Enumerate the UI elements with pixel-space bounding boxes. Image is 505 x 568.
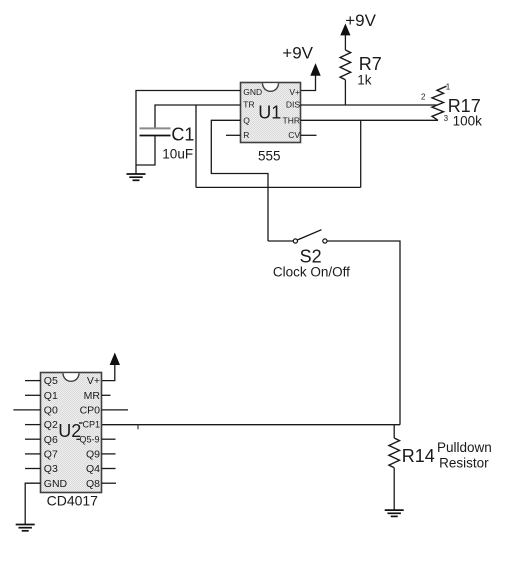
wire U1 DIS pin to R17 pin2 [301,104,437,106]
svg-text:2: 2 [421,93,426,102]
wire U1 CV pin stub [301,134,317,136]
svg-text:Q2: Q2 [44,419,58,431]
svg-text:Q8: Q8 [86,478,100,490]
wire to switch left contact [268,240,293,242]
svg-text:V+: V+ [87,375,100,387]
svg-text:GND: GND [44,478,68,490]
IC U1 555 body [241,83,301,143]
wire U1 TR pin to C1 [155,105,241,128]
svg-text:Q0: Q0 [44,405,58,417]
svg-text:R7: R7 [359,54,382,74]
svg-text:555: 555 [258,148,281,163]
svg-text:Q5-9: Q5-9 [79,434,99,444]
svg-text:R14: R14 [402,446,435,466]
tick mark on CP1 wire [137,425,139,430]
wire C1 bottom to ground wire [136,136,155,166]
wire U2 Q8 stub [102,482,117,484]
ground symbol (R14) [385,510,404,516]
svg-text:+9V: +9V [282,44,313,63]
svg-text:R: R [243,130,249,140]
power arrow symbol (U2 V+) [110,354,119,365]
capacitor C1 [140,128,171,135]
wire R14 to ground [393,468,395,510]
U2 pin label CP1 (active low) [79,419,100,429]
wire U2 Q3 stub [25,468,41,470]
wire junction to R14 [393,425,395,438]
svg-text:CV: CV [288,130,300,140]
ground symbol (C1/U1) [127,174,146,180]
svg-text:+9V: +9V [345,11,376,30]
wire TR-THR link vertical from TR line [195,105,197,187]
wire U2 GND pin to ground [25,483,40,524]
wire U2 CP1 to junction [102,424,401,426]
svg-text:Q1: Q1 [44,390,58,402]
wire U2 Q5 stub [25,380,41,382]
wire U1 R pin stub [226,134,241,136]
svg-text:TR: TR [243,99,254,109]
wire TR-THR link horizontal [196,186,361,188]
svg-text:Q: Q [243,115,250,125]
svg-text:1: 1 [446,82,451,91]
svg-text:DIS: DIS [286,99,301,109]
wire R7 bottom to DIS line [344,80,346,105]
wire U2 MR stub [102,394,111,396]
svg-text:100k: 100k [453,113,483,128]
wire U2 Q1 stub [25,394,41,396]
svg-text:Clock On/Off: Clock On/Off [273,265,350,280]
svg-text:GND: GND [243,87,262,97]
wire TR-THR link vertical to THR line [360,120,362,187]
svg-text:Resistor: Resistor [439,455,489,470]
wire V+ pin to arrow [301,75,316,90]
resistor R14 [389,438,400,468]
svg-text:S2: S2 [300,246,322,266]
svg-text:THR: THR [283,115,300,125]
svg-text:Pulldown: Pulldown [437,440,492,455]
svg-text:1k: 1k [357,72,372,87]
wire U1 GND pin to ground [136,91,241,174]
svg-text:Q5: Q5 [44,375,58,387]
switch S2 [293,230,327,243]
ground symbol (U2) [16,525,35,531]
svg-text:Q9: Q9 [86,449,100,461]
wire U2 Q5-9 stub [102,438,116,440]
wire U2 Q9 stub [102,453,116,455]
svg-text:CP0: CP0 [80,405,101,417]
potentiometer R17 [432,86,447,120]
svg-text:C1: C1 [171,124,194,144]
wire U2 V+ pin to arrow [102,365,115,381]
wire switch right contact to junction [327,241,400,425]
svg-text:CP1: CP1 [82,419,100,429]
svg-text:MR: MR [84,390,101,402]
svg-text:V+: V+ [289,87,300,97]
wire U1 Q pin loop to switch [211,120,268,241]
wire U2 Q4 stub [102,468,116,470]
svg-text:Q3: Q3 [44,463,58,475]
wire U2 Q7 stub [25,453,41,455]
svg-text:10uF: 10uF [162,147,193,162]
power arrow symbol (U1 V+) [311,64,320,75]
power arrow symbol (R7) [341,25,350,36]
svg-text:Q6: Q6 [44,434,58,446]
wire U1 THR pin to R17 pin3 [301,119,439,121]
svg-text:Q7: Q7 [44,449,58,461]
svg-text:CD4017: CD4017 [47,493,99,509]
wire U2 CP0 stub [102,409,129,411]
wire arrow to R7 top [344,35,346,50]
wire U2 Q0 stub [13,409,40,411]
U2 pin label Q5-9 (active low) [76,434,99,444]
svg-text:U1: U1 [258,102,281,122]
wire U2 Q2 stub [25,424,41,426]
svg-text:Q4: Q4 [86,463,100,475]
svg-text:U2: U2 [58,421,81,441]
wire U2 Q6 stub [25,438,41,440]
resistor R7 [340,50,351,80]
IC U2 CD4017 body [41,373,102,493]
